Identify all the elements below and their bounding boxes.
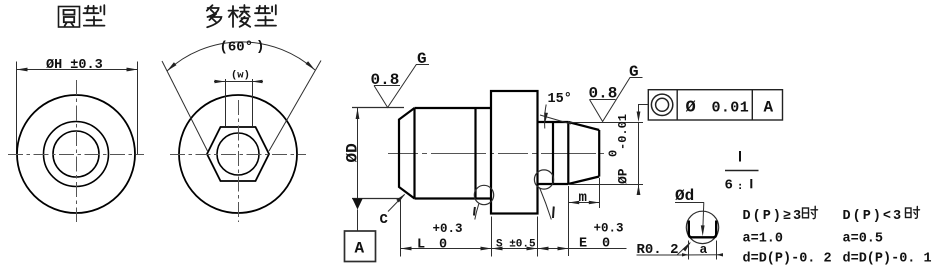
pilot groove line xyxy=(552,122,554,184)
R0.2 leader 1 xyxy=(677,243,690,255)
char shi (when) col1 xyxy=(803,206,818,218)
m dimension right extension xyxy=(599,178,601,208)
svg-text:0.8: 0.8 xyxy=(371,71,400,89)
arrow S left xyxy=(492,247,503,251)
pilot section bottom edge xyxy=(538,183,569,185)
OP dimension line xyxy=(638,122,640,190)
chamfer leader line xyxy=(388,195,405,212)
tolerance frame divider 1 xyxy=(676,90,678,120)
datum leader stem xyxy=(357,210,359,232)
arrow L left xyxy=(401,247,412,251)
tolerance frame divider 2 xyxy=(751,90,753,120)
char shi (when) col2 xyxy=(906,207,920,219)
shank groove line xyxy=(474,108,476,199)
Od underline xyxy=(675,202,704,204)
concentricity symbol outer xyxy=(651,94,672,115)
svg-text:E: E xyxy=(579,237,587,252)
arrow w right xyxy=(252,80,263,84)
char duo (many) xyxy=(207,5,222,27)
dimension line xyxy=(17,69,138,71)
char xing (type) xyxy=(255,5,276,25)
svg-text:0.8: 0.8 xyxy=(589,85,618,103)
OD dimension top extension xyxy=(352,107,404,109)
OD dimension bottom extension xyxy=(352,198,400,200)
arrow OD top xyxy=(356,108,360,119)
view1 inner circle xyxy=(53,131,99,177)
svg-text:0: 0 xyxy=(439,238,447,253)
bottom dimension line chain xyxy=(401,248,627,250)
L dimension left extension xyxy=(400,200,402,257)
extension line right xyxy=(137,62,139,155)
svg-text:ØP: ØP xyxy=(616,168,631,184)
tolerance frame leader xyxy=(639,105,649,118)
arrow OH left xyxy=(17,68,28,72)
arrow frame leader down xyxy=(637,112,641,123)
arrow E left xyxy=(538,247,549,251)
svg-text:m: m xyxy=(579,190,587,206)
arrow a left xyxy=(682,253,689,256)
detail circle left xyxy=(474,185,493,204)
svg-text:A: A xyxy=(764,99,774,117)
taper top edge xyxy=(568,122,599,130)
view2 angle line right xyxy=(269,61,321,152)
taper angle arc xyxy=(545,105,547,129)
arrow OP bottom up xyxy=(637,185,641,196)
svg-text:D(P)≥3: D(P)≥3 xyxy=(743,209,804,224)
surface finish symbol 2 xyxy=(590,78,643,122)
view1 outer circle xyxy=(17,95,135,213)
title: multi-edge-type label (CJK hand-drawn) xyxy=(207,5,276,27)
chamfer edge line xyxy=(413,108,415,199)
svg-text:): ) xyxy=(256,39,264,55)
label I left xyxy=(473,207,476,216)
tolerance frame box xyxy=(648,90,782,120)
svg-text:+0.3: +0.3 xyxy=(433,222,463,236)
a dimension extension left xyxy=(688,241,690,260)
svg-text:(w): (w) xyxy=(231,70,250,82)
w dimension extension left xyxy=(225,79,227,126)
taper start edge xyxy=(567,122,569,184)
title: round-type label (CJK hand-drawn) xyxy=(59,5,105,27)
view2 hexagon xyxy=(207,127,269,181)
tip end face xyxy=(598,130,600,177)
concentricity symbol inner xyxy=(656,98,669,111)
w dimension extension right xyxy=(252,79,254,126)
char yuan (circle) xyxy=(59,7,80,28)
svg-text:S ±0.5: S ±0.5 xyxy=(496,239,536,251)
arrow R0.2 leader xyxy=(683,242,691,252)
detail leader right xyxy=(540,188,552,220)
svg-text:C: C xyxy=(380,212,389,228)
label scale 1 xyxy=(750,179,752,188)
svg-text:6: 6 xyxy=(725,178,733,194)
detail balloon circle xyxy=(686,211,718,243)
OP bottom extension line xyxy=(568,184,643,186)
svg-text:15°: 15° xyxy=(548,92,572,107)
view1 dimension OH +-0.3: extension line left xyxy=(17,62,138,155)
arrow arc right end xyxy=(306,61,316,70)
arrow m right xyxy=(589,201,600,205)
arrow taper angle xyxy=(544,113,548,124)
view2 inscribed circle xyxy=(217,133,259,175)
main view centerline xyxy=(388,153,605,155)
L/S shared extension xyxy=(491,217,493,257)
svg-text:0.01: 0.01 xyxy=(712,100,750,117)
taper bottom edge xyxy=(568,177,599,185)
view1 centerline vertical xyxy=(76,80,78,222)
svg-text:A: A xyxy=(355,240,365,258)
svg-text:0: 0 xyxy=(602,237,610,252)
svg-text:L: L xyxy=(417,238,425,253)
view2 centerline vertical xyxy=(238,100,240,222)
svg-text:d=D(P)-0. 2: d=D(P)-0. 2 xyxy=(743,252,832,267)
char leng (edge) xyxy=(229,5,251,27)
char xing (type) xyxy=(84,5,105,25)
svg-text:ØD: ØD xyxy=(344,143,362,162)
pilot section top edge xyxy=(538,121,569,123)
svg-text:R0. 2: R0. 2 xyxy=(637,242,679,258)
view2 angle dimension arc xyxy=(167,42,315,71)
arrow L right xyxy=(481,247,492,251)
arrow a right xyxy=(717,253,724,256)
detail scale fraction bar xyxy=(725,170,759,172)
R0.2 underline xyxy=(637,254,678,256)
arrow chamfer leader xyxy=(396,194,405,203)
arrow m left xyxy=(569,201,580,205)
arrow E right xyxy=(558,247,569,251)
shank bottom edge xyxy=(415,197,492,199)
flange outline xyxy=(491,91,538,214)
view2 outer circle xyxy=(179,95,297,213)
svg-text:Ø: Ø xyxy=(686,99,696,118)
S/E shared extension xyxy=(537,217,539,257)
arrow w left xyxy=(215,80,226,84)
svg-text:d=D(P)-0. 1: d=D(P)-0. 1 xyxy=(843,252,932,267)
shank cylinder outline with chamfers xyxy=(399,91,599,214)
view1 ring outer circle xyxy=(44,122,109,187)
svg-text:a: a xyxy=(700,242,708,257)
a dimension extension right xyxy=(716,241,718,260)
arrow Od leader down xyxy=(701,225,705,236)
OP top extension line xyxy=(568,122,643,124)
OD dimension line xyxy=(357,108,359,199)
arrow arc left end xyxy=(167,62,177,71)
label I right xyxy=(552,207,555,219)
svg-text:G: G xyxy=(629,63,639,81)
svg-text:-0.01: -0.01 xyxy=(616,114,630,150)
detail tip outline bold xyxy=(689,221,716,238)
taper angle reference line xyxy=(540,115,571,124)
svg-text:G: G xyxy=(417,50,427,68)
Od leader vertical xyxy=(703,202,704,230)
detail leader left xyxy=(475,204,479,220)
svg-text:ØH ±0.3: ØH ±0.3 xyxy=(46,58,103,73)
svg-text:D(P)<3: D(P)<3 xyxy=(843,209,904,224)
svg-text:(60°: (60° xyxy=(220,40,254,56)
detail view label I xyxy=(739,151,741,162)
w dimension line xyxy=(214,81,263,83)
detail circle right xyxy=(534,170,553,189)
label scale colon xyxy=(739,184,741,186)
svg-text:a=0.5: a=0.5 xyxy=(843,232,884,247)
datum box A xyxy=(345,231,376,262)
surface finish symbol 1 xyxy=(374,65,429,108)
view1 centerline horizontal xyxy=(8,154,144,156)
datum triangle filled xyxy=(352,199,362,210)
svg-text:+0.3: +0.3 xyxy=(594,222,624,236)
shank top edge xyxy=(415,107,492,109)
R0.2 leader 2 xyxy=(677,254,723,256)
arrow S right xyxy=(527,247,538,251)
svg-text:a=1.0: a=1.0 xyxy=(743,232,784,247)
view2 angle line left xyxy=(162,61,208,151)
view2 centerline horizontal xyxy=(170,154,306,156)
m/E shared extension line xyxy=(568,186,570,256)
arrow OH right xyxy=(127,68,138,72)
m dimension line xyxy=(569,202,600,204)
